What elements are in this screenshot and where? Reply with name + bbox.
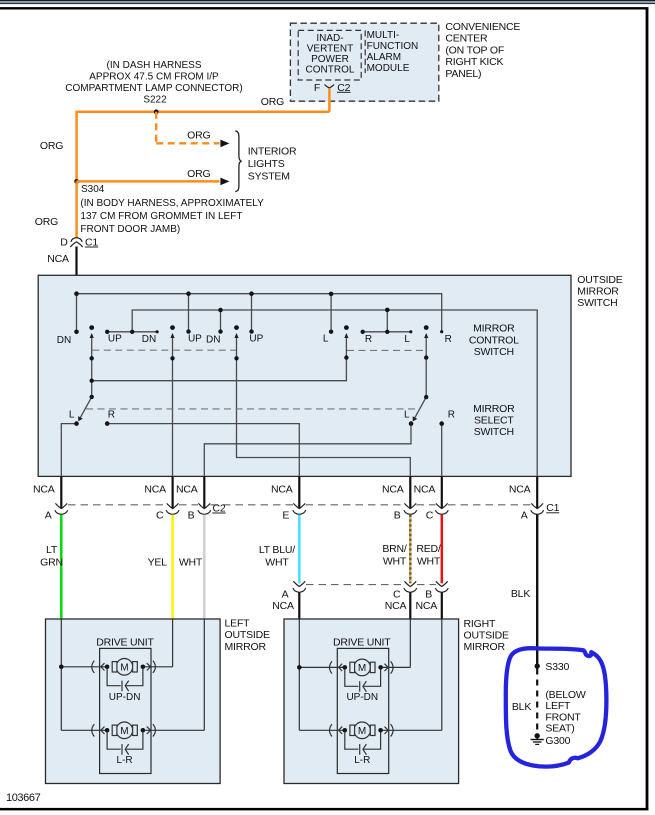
svg-text:A: A [521,509,528,521]
splice S330 dot [535,663,540,668]
svg-text:S330: S330 [545,661,569,673]
wire link R4-L5 [363,331,411,333]
wire stub bus2 to link R4-L5 [386,310,388,332]
black wires row2 into right drive unit [299,592,442,619]
svg-text:ORG: ORG [261,96,284,108]
svg-text:BRN/WHT: BRN/WHT [382,543,407,568]
svg-text:NCA: NCA [509,484,531,496]
wire WHT [203,515,206,619]
svg-text:S304: S304 [81,184,105,195]
connector row2 B [435,581,448,592]
left outside mirror box [46,619,221,784]
svg-text:L-R: L-R [354,755,370,766]
dashed linkage select switch [86,408,416,410]
motor U3 up-dn right drive [297,619,410,730]
svg-text:NCA: NCA [176,484,198,496]
svg-text:E: E [282,509,289,521]
svg-text:NCA: NCA [382,484,404,496]
wire select2 R to C terminal [441,424,443,477]
page frame bottom border [0,808,648,811]
svg-text:DRIVE UNIT: DRIVE UNIT [96,636,154,648]
right drive unit inner box [337,648,388,773]
svg-text:L: L [404,334,410,345]
capacitor under motor U1 [107,668,143,691]
wire BRN/WHT two-tone [409,515,412,584]
page frame top border [0,7,648,9]
right outside mirror box [284,619,459,784]
svg-text:B: B [425,588,432,600]
dashed linkage control switch left group [92,349,236,351]
arm 4 arrowhead [344,333,348,338]
svg-text:NCA: NCA [416,600,438,612]
svg-text:UP: UP [188,333,202,344]
wire BLK from C1-A [536,515,538,666]
svg-text:ORG: ORG [187,168,210,180]
switch arm 1 select diagonal [80,397,92,419]
wire LT GRN [60,515,63,619]
splice S304 junction dot [74,179,79,184]
wire link UP1-DN2 [107,331,157,333]
svg-text:M: M [358,726,366,737]
connector terminal E (LT BLU) [293,503,306,514]
svg-text:S222: S222 [143,95,167,106]
svg-text:BLK: BLK [511,588,530,600]
svg-text:R: R [448,410,455,421]
select arm 2 arrowhead [413,416,418,421]
svg-text:UP-DN: UP-DN [109,692,141,703]
left drive unit inner box [100,648,151,773]
svg-text:B: B [394,509,401,521]
wire stub to L contact 4 [330,294,332,332]
arrowhead to interior lights (upper) [220,140,229,148]
motor U2 l-r left drive [61,619,204,739]
wire ORG main horizontal [77,111,330,114]
svg-text:BLK: BLK [512,701,531,713]
svg-text:NCA: NCA [47,253,69,265]
arm mid dots [90,355,429,360]
wire ORG left vertical S222 to S304 [75,111,78,182]
inadvertent power control inner dashed box [298,30,361,80]
switch arm 4 (control l-r) routed to arm1 [92,334,347,381]
wire YEL [171,515,174,619]
svg-text:M: M [120,662,128,673]
label C2 (underlined) [337,82,351,94]
svg-text:ORG: ORG [35,216,58,228]
dashed connector row2 line [306,584,436,586]
junction dots on bus2 [130,308,390,334]
switch arm 3 (control) routed to B terminal [237,334,411,476]
wire stub to DN contact 3 [220,310,222,332]
terminal letters row1 [45,509,528,521]
svg-text:MIRRORCONTROLSWITCH: MIRRORCONTROLSWITCH [469,323,519,358]
svg-text:M: M [358,663,366,674]
svg-text:DN: DN [142,334,156,345]
arm 1 arrowhead [90,333,94,338]
capacitor under motor U4 [345,732,381,755]
arm 2 arrowhead [170,333,174,338]
select switch contact dots [74,421,444,426]
svg-text:NCA: NCA [414,484,436,496]
labels NCA row under box [33,484,531,496]
wire NCA black into switch box [75,247,77,294]
wire select2 L to B terminal [204,424,411,477]
arm 3 arrowhead [234,333,238,338]
svg-text:L: L [323,334,329,345]
svg-text:DN: DN [57,335,71,346]
wire stub to DN contact 1 [76,294,78,332]
svg-text:DN: DN [206,334,220,345]
svg-text:NCA: NCA [385,600,407,612]
wire bus1 top feed bus [77,294,442,332]
motor U1 up-dn left drive [59,619,173,730]
svg-text:R: R [365,334,372,345]
switch arm 5 select diagonal [414,397,426,419]
contact dots control switch row [74,329,443,334]
switch arm 2 (control) down to C terminal [172,334,174,476]
dashed separator line right of inner box [364,30,366,73]
svg-text:C: C [426,509,434,521]
connector row2 A (left outside mirror side) [293,581,306,592]
splice S222 junction dot [154,109,159,114]
switch arm 5 (control) [425,334,427,397]
wire bus2 common bus to C1-A output [132,310,537,476]
wire select1 L to A terminal [61,424,76,477]
arm pivot dots top [89,325,428,330]
svg-text:OUTSIDEMIRRORSWITCH: OUTSIDEMIRRORSWITCH [577,274,622,309]
svg-text:MIRRORSELECTSWITCH: MIRRORSELECTSWITCH [473,403,515,438]
page frame right border [646,8,649,810]
connector C2 at multi-function alarm module [325,85,335,88]
svg-text:M: M [120,726,128,737]
dashed connector row line C2/C1 [68,504,531,506]
svg-text:YEL: YEL [148,556,168,568]
svg-text:C: C [156,509,164,521]
svg-text:DRIVE UNIT: DRIVE UNIT [333,636,391,648]
capacitor under motor U2 [107,732,143,755]
convenience center outer dashed box [290,23,438,101]
wire BLK dashed below S330 [536,669,538,732]
dashed linkage control switch right group [347,349,426,351]
arm 5 arrowhead [424,333,428,338]
svg-text:WHT: WHT [179,556,203,568]
svg-text:NCA: NCA [144,484,166,496]
svg-text:B: B [188,509,195,521]
label C1 row1 (underlined) [546,502,559,514]
capacitor under motor U3 [345,669,381,692]
connector terminal B (BRN) [404,503,417,514]
svg-text:NCA: NCA [33,484,55,496]
wire LT BLU/WHT [298,515,301,584]
wire ORG riser from C2 connector [328,88,331,111]
blue annotation loop [506,648,607,766]
svg-text:R: R [445,334,452,345]
connector terminal A (LT GRN) [55,503,68,514]
arm1 lower junction dots [90,379,429,400]
wire RED/WHT [441,515,444,584]
svg-text:UP: UP [108,333,122,344]
svg-text:NCA: NCA [271,484,293,496]
svg-text:103667: 103667 [6,792,41,804]
connector terminal C (RED) [435,503,448,514]
svg-text:G300: G300 [545,735,570,747]
svg-text:L: L [404,410,410,421]
black wire stubs exiting switch box bottom [61,476,537,508]
connector row2 C [404,581,417,592]
wire ORG solid branch from S304 [77,180,220,183]
svg-text:A: A [282,588,289,600]
connector C1 inline (D) [70,238,82,247]
svg-text:A: A [45,509,52,521]
brace for interior lights system [235,131,241,192]
select arm 1 arrowhead [78,416,83,421]
svg-text:ORG: ORG [40,140,63,152]
arrowhead to interior lights (lower) [220,178,229,186]
connector terminal A (BLK) C1 [531,503,544,514]
wire stub to UP contact 2 [188,294,190,332]
svg-text:L-R: L-R [117,755,133,766]
motor U4 l-r right drive [299,619,442,739]
label C1 (underlined) [85,236,99,248]
window top bar [0,0,655,4]
svg-text:ORG: ORG [187,130,210,142]
ground G300 symbol [531,733,544,744]
connector terminal C (YEL) [166,503,179,514]
svg-text:RED/WHT: RED/WHT [416,543,441,568]
svg-text:UP-DN: UP-DN [346,692,378,703]
switch arm 1 (mirror control, up-dn left) [91,334,93,397]
connector terminal B (WHT) [198,503,211,514]
outside mirror switch box [38,275,571,476]
svg-text:D: D [60,236,68,248]
junction dots on bus1 [74,291,333,296]
svg-text:R: R [108,410,115,421]
wire ORG dashed branch from S222 [156,112,219,144]
wire select1 R to E terminal [107,424,299,477]
svg-text:NCA: NCA [272,600,294,612]
svg-text:F: F [314,82,320,94]
wire ORG S304 down to C1 connector [75,181,78,238]
svg-text:UP: UP [249,333,263,344]
svg-text:L: L [69,410,75,421]
wire stub to UP contact 3 [251,294,253,332]
label C2 row1 (underlined) [212,502,226,514]
svg-text:C: C [393,588,401,600]
